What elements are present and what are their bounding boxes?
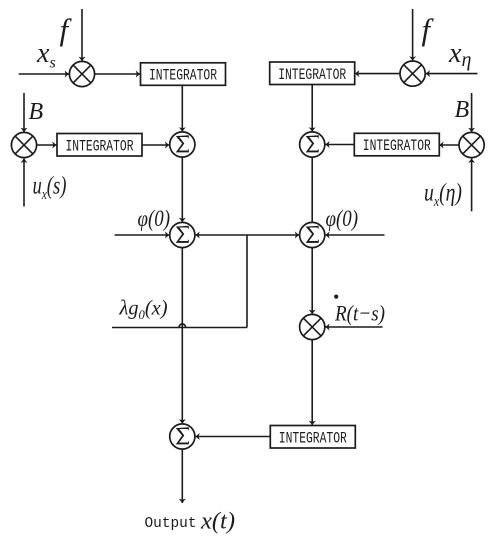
wire: u_x(s) input (up from below) — [21, 159, 28, 207]
svg-text:INTEGRATOR: INTEGRATOR — [279, 429, 347, 447]
label B (left) — [29, 99, 44, 125]
label u_x(eta) — [424, 180, 462, 211]
wire: M3 output to U3 — [355, 70, 400, 77]
wire: M5 output down to U5 — [309, 340, 316, 425]
wire hop over left column at (182,327) — [179, 324, 186, 327]
label u_x(s) — [33, 173, 67, 204]
integrator U1 — [141, 63, 226, 86]
label B (right) — [455, 97, 470, 123]
wire: phi(0) right input — [325, 232, 384, 239]
wire: U2 output to S1 — [142, 142, 169, 149]
label phi(0) right — [326, 206, 359, 231]
wire: Rdot(t-s) input — [325, 324, 382, 331]
multiplier M1 (x_s x f) — [69, 61, 94, 86]
svg-text:x(t): x(t) — [200, 508, 235, 535]
svg-text:ux(η): ux(η) — [424, 180, 462, 211]
summer S1 — [170, 132, 195, 157]
label Output x(t) — [145, 508, 236, 535]
wire: centre vertical down from S3/S4 line — [246, 235, 248, 328]
wire: output arrow — [179, 449, 186, 503]
wire: centre line into S3 — [195, 232, 247, 239]
svg-text:INTEGRATOR: INTEGRATOR — [149, 67, 217, 85]
wire: B input (left vertical) — [21, 93, 28, 132]
summer S3 — [170, 222, 195, 247]
label f (top-left) — [60, 12, 73, 47]
summer S4 — [300, 222, 325, 247]
integrator U5 — [270, 426, 355, 449]
wire: f input (top-left vertical) — [79, 9, 86, 61]
multiplier M4 (B x u_x(eta)) — [459, 132, 484, 157]
svg-text:B: B — [29, 99, 44, 125]
svg-text:B: B — [455, 97, 470, 123]
label f (top-right) — [422, 12, 435, 47]
label phi(0) left — [138, 206, 171, 231]
wire: M2 output to U2 — [37, 142, 57, 149]
wire: lambda g0(x) horizontal into centre column — [112, 327, 247, 329]
svg-text:INTEGRATOR: INTEGRATOR — [66, 137, 134, 155]
wire: B input (right vertical) — [468, 93, 475, 132]
wire: U5 output to S5 — [195, 433, 270, 440]
label x_s — [36, 38, 56, 72]
label Rdot(t-s) — [334, 295, 385, 326]
wire: u_x(eta) input (up from below) — [468, 159, 475, 212]
svg-text:ux(s): ux(s) — [33, 173, 67, 204]
multiplier M5 (Rdot modulator) — [300, 314, 325, 339]
wire: S1 output down to S3 — [179, 157, 186, 222]
svg-text:Output: Output — [145, 515, 197, 532]
wire: U4 output to S2 — [325, 141, 354, 148]
wire: S3 output down to S5 — [179, 248, 186, 424]
integrator U4 — [354, 133, 439, 156]
wire: S2 output down to M5 — [309, 157, 316, 314]
svg-text:R(t−s): R(t−s) — [334, 301, 385, 326]
label lambda g0(x) — [119, 296, 168, 323]
wire: f input (top-right vertical) — [409, 9, 416, 61]
svg-text:INTEGRATOR: INTEGRATOR — [278, 66, 346, 84]
summer S2 — [300, 132, 325, 157]
multiplier M2 (B x u_x(s)) — [11, 132, 36, 157]
summer S5 — [170, 424, 195, 449]
multiplier M3 (x_eta x f) — [400, 61, 425, 86]
wire: M1 output to U1 — [95, 71, 140, 78]
wire: centre line into S4 — [247, 232, 299, 239]
svg-text:φ(0): φ(0) — [138, 206, 171, 231]
label x_eta — [448, 38, 471, 71]
wire: x_s input — [19, 71, 69, 78]
svg-text:INTEGRATOR: INTEGRATOR — [363, 137, 431, 155]
svg-text:φ(0): φ(0) — [326, 206, 359, 231]
wire: U3 output down to S2 — [309, 84, 316, 131]
integrator U2 — [57, 134, 142, 157]
wire: phi(0) left input — [115, 232, 170, 239]
wire: x_eta input — [426, 70, 478, 77]
wire: M4 output to U4 — [439, 142, 459, 149]
integrator U3 — [270, 62, 355, 85]
wire: U1 output down to S1 — [179, 86, 186, 132]
